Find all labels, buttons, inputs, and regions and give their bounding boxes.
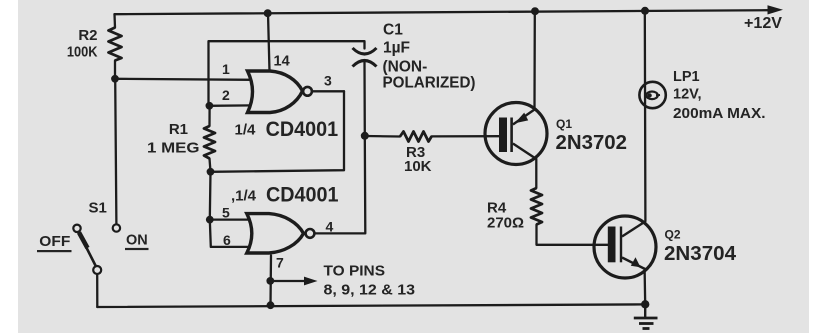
svg-text:OFF: OFF bbox=[39, 233, 70, 250]
wire R1 bottom stub bbox=[210, 159, 211, 172]
arrow TO PINS bbox=[304, 277, 318, 286]
wire R3 to Q1 base bbox=[432, 135, 500, 137]
junction R1 bottom/feedback bbox=[207, 168, 215, 176]
svg-text:TO PINS: TO PINS bbox=[324, 262, 386, 279]
svg-text:6: 6 bbox=[223, 232, 231, 248]
svg-text:,1/4: ,1/4 bbox=[231, 188, 257, 205]
wire pin 14 to rail bbox=[268, 13, 270, 71]
svg-text:ON: ON bbox=[126, 231, 148, 248]
transistor Q2 2N3704 bbox=[594, 216, 656, 278]
wire switch pivot to bottom rail bbox=[96, 274, 98, 307]
wire pin 7 down to bottom rail bbox=[269, 256, 272, 306]
wire node A to NOR1 pin 1 bbox=[115, 79, 252, 80]
wire TO PINS arrow line bbox=[270, 280, 306, 282]
resistor R2 bbox=[109, 28, 122, 61]
svg-text:LP1: LP1 bbox=[673, 69, 700, 85]
wire pin 2 input bbox=[209, 104, 252, 107]
wire bottom ground rail bbox=[97, 304, 645, 307]
wire rail through LP1 to Q2 collector bbox=[644, 11, 647, 221]
svg-text:R2: R2 bbox=[78, 27, 97, 44]
junction pin2/R1 bbox=[206, 102, 214, 110]
switch OFF contact bbox=[73, 225, 80, 232]
svg-text:R1: R1 bbox=[169, 121, 188, 138]
op-amp U1a NOR gate 1/4 CD4001 bbox=[248, 71, 303, 113]
junction pin5 bbox=[206, 216, 214, 224]
svg-text:POLARIZED): POLARIZED) bbox=[383, 75, 476, 92]
junction pin7/arrow bbox=[266, 277, 274, 285]
resistor R1 bbox=[204, 126, 215, 159]
switch ON contact bbox=[113, 224, 120, 231]
ground bbox=[634, 304, 658, 328]
transistor Q1 2N3702 bbox=[485, 103, 547, 165]
wire pin 5 input bbox=[210, 218, 252, 220]
junction rail/Q1 emitter bbox=[531, 7, 539, 15]
resistor R4 bbox=[531, 188, 542, 225]
svg-text:S1: S1 bbox=[89, 200, 107, 217]
switch lever bbox=[79, 232, 97, 267]
wire Q1 collector to R4 bbox=[535, 159, 537, 188]
junction node C (C1/R3/pin4) bbox=[361, 132, 369, 140]
wire feedback box right+bottom (pin3 to R1 bottom) bbox=[211, 91, 345, 172]
svg-text:CD4001: CD4001 bbox=[266, 118, 339, 141]
svg-text:1: 1 bbox=[222, 61, 230, 77]
wire C1 bottom to node C bbox=[363, 63, 366, 136]
svg-text:(NON-: (NON- bbox=[383, 59, 428, 76]
svg-text:8, 9, 12 & 13: 8, 9, 12 & 13 bbox=[324, 281, 416, 298]
wire NOR2 output pin 4 up to node C bbox=[314, 136, 365, 234]
svg-text:C1: C1 bbox=[383, 22, 403, 39]
wire +12V top rail bbox=[115, 10, 771, 14]
wire R2 bottom to node A bbox=[114, 61, 116, 79]
junction node A (R2/pin1/S1) bbox=[111, 75, 119, 83]
capacitor C1 bbox=[353, 48, 377, 54]
svg-text:2N3704: 2N3704 bbox=[664, 243, 737, 265]
svg-text:100K: 100K bbox=[67, 45, 98, 61]
arrowhead +12V bbox=[768, 5, 784, 14]
svg-text:Q1: Q1 bbox=[556, 117, 572, 131]
wire Q2 emitter to ground node bbox=[643, 269, 646, 305]
wire R4 bottom to Q2 base bbox=[537, 225, 608, 245]
svg-text:1/4: 1/4 bbox=[235, 122, 257, 139]
svg-text:1µF: 1µF bbox=[383, 40, 410, 57]
lamp LP1 bbox=[639, 82, 665, 108]
svg-text:2: 2 bbox=[222, 87, 230, 103]
wire NOR1 output pin 3 bbox=[312, 90, 344, 92]
wire Q1 emitter to rail bbox=[533, 11, 536, 108]
op-amp U1b NOR gate 1/4 CD4001 bbox=[247, 214, 304, 253]
wire node B vertical (R1 bottom to pin5) bbox=[209, 172, 212, 220]
wire pin 6 loop bbox=[210, 220, 252, 247]
svg-text:12V,: 12V, bbox=[673, 87, 702, 103]
resistor R3 bbox=[400, 132, 432, 142]
junction rail/pin14 bbox=[264, 9, 272, 17]
svg-text:200mA MAX.: 200mA MAX. bbox=[673, 105, 766, 122]
wire R2 top stub bbox=[113, 14, 116, 27]
svg-text:270Ω: 270Ω bbox=[487, 215, 524, 232]
svg-text:5: 5 bbox=[222, 205, 230, 221]
wire R1 top stub bbox=[208, 106, 210, 126]
wire node C to R3 bbox=[365, 135, 400, 138]
svg-text:14: 14 bbox=[274, 54, 290, 70]
svg-text:CD4001: CD4001 bbox=[266, 183, 339, 206]
junction ground node bbox=[641, 300, 649, 308]
svg-text:1 MEG: 1 MEG bbox=[147, 140, 200, 157]
junction pin7/bottom rail bbox=[267, 301, 275, 309]
wire node A to switch ON terminal bbox=[115, 79, 116, 225]
svg-text:3: 3 bbox=[324, 73, 332, 89]
svg-text:10K: 10K bbox=[404, 158, 432, 175]
svg-text:4: 4 bbox=[326, 219, 334, 235]
junction rail/LP1 bbox=[641, 7, 649, 15]
switch pivot bbox=[93, 266, 101, 274]
svg-text:Q2: Q2 bbox=[665, 228, 681, 242]
svg-text:2N3702: 2N3702 bbox=[556, 132, 628, 154]
wire feedback box top (pin2 node to C1 top) bbox=[209, 41, 365, 106]
svg-text:7: 7 bbox=[276, 255, 284, 271]
svg-text:+12V: +12V bbox=[744, 15, 782, 32]
